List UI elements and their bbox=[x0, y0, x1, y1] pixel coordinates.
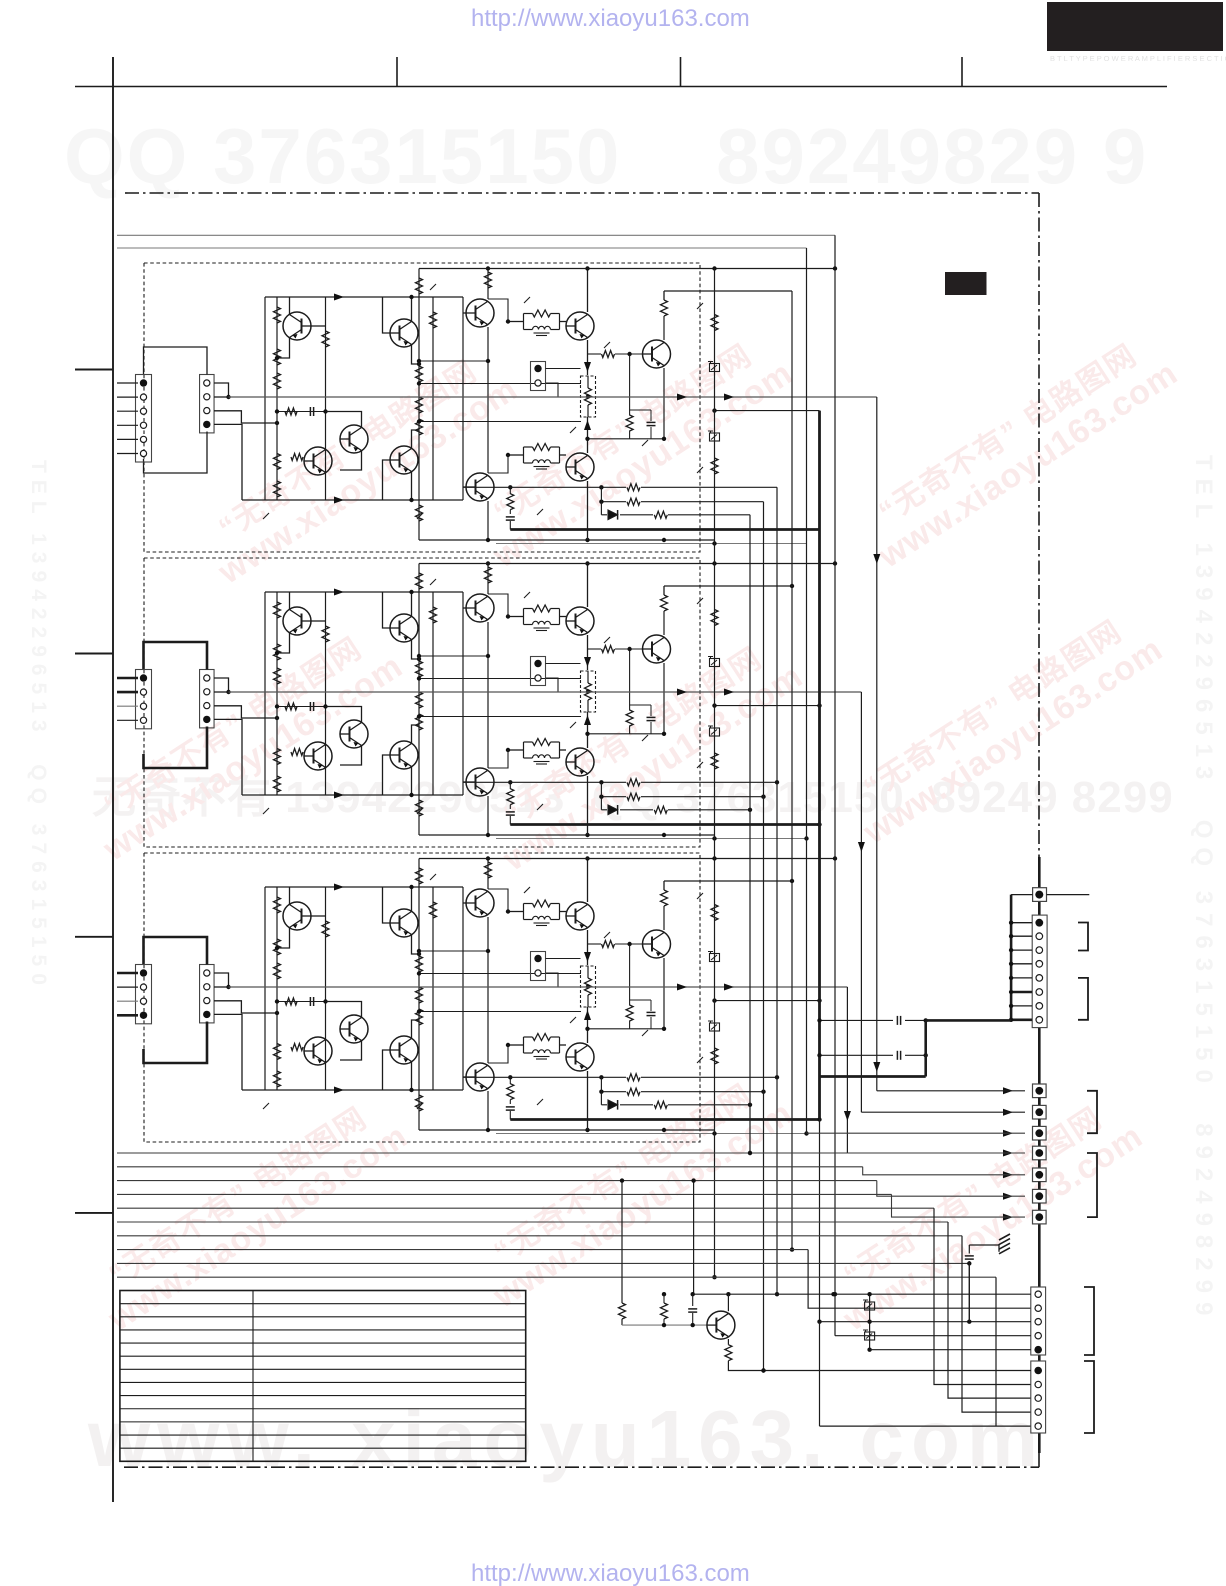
wire bbox=[117, 1014, 138, 1017]
resistor R62 bbox=[585, 978, 592, 995]
junction bbox=[726, 1292, 730, 1296]
wire bbox=[229, 986, 848, 988]
wire bbox=[620, 514, 653, 516]
junction bbox=[585, 437, 589, 441]
transistor Q24 bbox=[390, 909, 418, 937]
wire bbox=[144, 432, 208, 474]
wire bbox=[411, 767, 413, 796]
wire bbox=[264, 297, 266, 500]
wire bbox=[488, 299, 508, 322]
wire bbox=[650, 722, 652, 734]
wire bbox=[934, 1208, 1031, 1384]
resistor-inductor network Z4 bbox=[523, 742, 525, 758]
resistor R58 bbox=[416, 1095, 423, 1111]
wire bbox=[263, 1103, 269, 1109]
junction bbox=[691, 1323, 695, 1327]
wire bbox=[325, 887, 327, 1090]
wire bbox=[383, 592, 391, 628]
wire bbox=[641, 1076, 777, 1078]
junction bbox=[585, 561, 589, 565]
junction bbox=[486, 949, 490, 953]
wire bbox=[412, 430, 420, 449]
connector CN3 (2-pin) bbox=[531, 362, 546, 391]
transistor Q22 bbox=[304, 1037, 332, 1065]
svg-text:http://www.xiaoyu163.com: http://www.xiaoyu163.com bbox=[471, 1560, 750, 1586]
junction bbox=[712, 266, 716, 270]
wire bbox=[587, 376, 589, 388]
capacitor C4 bbox=[309, 702, 311, 711]
resistor R32 bbox=[416, 573, 423, 589]
wire bbox=[668, 514, 750, 516]
wire bbox=[560, 749, 567, 751]
junction bbox=[508, 485, 512, 489]
wire bbox=[229, 691, 862, 693]
junction bbox=[761, 795, 765, 799]
wire bbox=[629, 354, 631, 416]
junction bbox=[417, 381, 421, 385]
wire bbox=[847, 1152, 1002, 1154]
trimmer resistor VR bbox=[581, 376, 596, 417]
wire bbox=[727, 1339, 729, 1345]
resistor R59 bbox=[485, 862, 492, 878]
connector CN-A (5-pin) bbox=[1031, 1287, 1046, 1355]
wire bbox=[663, 368, 665, 439]
resistor R12 bbox=[416, 397, 423, 413]
wire bbox=[905, 1019, 926, 1021]
junction bbox=[486, 856, 490, 860]
junction bbox=[817, 1053, 821, 1057]
junction bbox=[599, 500, 603, 504]
resistor R52 bbox=[291, 1044, 303, 1051]
junction bbox=[775, 780, 779, 784]
wire bbox=[463, 1076, 466, 1078]
wire bbox=[509, 1077, 511, 1084]
wire bbox=[340, 451, 362, 471]
wire bbox=[546, 973, 559, 987]
resistor R79 bbox=[711, 753, 718, 769]
wire bbox=[604, 932, 610, 938]
wire bbox=[1038, 1433, 1041, 1453]
wire bbox=[383, 755, 391, 795]
junction bbox=[867, 1292, 871, 1296]
junction bbox=[417, 657, 421, 661]
junction bbox=[817, 703, 821, 707]
wire bbox=[570, 427, 576, 433]
wire bbox=[411, 1062, 413, 1091]
wire bbox=[560, 911, 567, 913]
wire bbox=[488, 594, 508, 617]
capacitor C9 bbox=[506, 1106, 515, 1108]
wire bbox=[463, 312, 466, 314]
wire bbox=[117, 1221, 948, 1223]
junction bbox=[1009, 976, 1013, 980]
wire bbox=[276, 887, 278, 1090]
wire bbox=[588, 353, 601, 355]
junction bbox=[599, 795, 603, 799]
wire bbox=[340, 1041, 362, 1061]
wire bbox=[1038, 1098, 1041, 1287]
wire bbox=[411, 472, 413, 501]
wire bbox=[277, 411, 326, 413]
wire bbox=[1002, 1216, 1025, 1218]
wire bbox=[650, 1000, 652, 1011]
resistor R42 bbox=[626, 710, 633, 726]
resistor R26 bbox=[274, 749, 281, 765]
svg-text:QQ 376315150 89249829 9: QQ 376315150 89249829 9 bbox=[64, 112, 1148, 200]
group bracket bbox=[1078, 978, 1088, 1020]
wire bbox=[508, 321, 524, 323]
amplifier channel block 3 outline bbox=[144, 853, 700, 1142]
junction bbox=[790, 1247, 794, 1251]
wire bbox=[587, 700, 589, 712]
resistor R67 bbox=[627, 484, 640, 491]
junction bbox=[417, 952, 421, 956]
wire bbox=[432, 592, 434, 795]
wire bbox=[214, 678, 229, 692]
signal arrow bbox=[584, 657, 591, 667]
trimmer resistor VR bbox=[581, 671, 596, 712]
junction bbox=[275, 716, 279, 720]
wire bbox=[264, 592, 266, 795]
wire bbox=[749, 515, 751, 1153]
wire bbox=[621, 1181, 623, 1303]
fusible resistor F4 bbox=[710, 728, 720, 736]
wire bbox=[1038, 1028, 1041, 1084]
junction bbox=[691, 1178, 695, 1182]
junction bbox=[417, 971, 421, 975]
resistor R40 bbox=[585, 683, 592, 700]
fusible resistor F2 bbox=[710, 433, 720, 441]
junction bbox=[775, 1292, 779, 1296]
wire bbox=[311, 915, 326, 917]
wire bbox=[1002, 1195, 1025, 1197]
junction bbox=[627, 942, 631, 946]
diode D3 bbox=[608, 1100, 618, 1110]
junction bbox=[833, 266, 837, 270]
junction bbox=[804, 1131, 808, 1135]
junction bbox=[506, 909, 510, 913]
wire bbox=[117, 382, 138, 384]
wire bbox=[693, 1181, 695, 1295]
wire bbox=[510, 823, 819, 826]
resistor R46 bbox=[274, 939, 281, 955]
wire bbox=[642, 440, 648, 446]
wire bbox=[462, 887, 464, 1090]
junction bbox=[226, 395, 230, 399]
wire bbox=[488, 889, 508, 912]
junction bbox=[486, 359, 490, 363]
wire bbox=[1038, 857, 1041, 888]
resistor R69 bbox=[627, 1074, 640, 1081]
wire bbox=[265, 591, 463, 593]
junction bbox=[967, 1320, 971, 1324]
wire bbox=[587, 340, 589, 375]
junction bbox=[599, 1090, 603, 1094]
wire bbox=[117, 1152, 847, 1154]
wire bbox=[1011, 922, 1032, 924]
junction bbox=[599, 780, 603, 784]
transistor Q13 bbox=[340, 720, 368, 748]
transistor Q25 bbox=[390, 1036, 418, 1064]
resistor R73 bbox=[654, 511, 667, 518]
junction bbox=[585, 732, 589, 736]
wire bbox=[117, 691, 138, 694]
wire bbox=[560, 1044, 567, 1046]
transistor Q8 bbox=[566, 312, 594, 340]
wire bbox=[508, 1044, 524, 1046]
junction bbox=[712, 856, 716, 860]
signal arrow bbox=[1003, 1171, 1013, 1178]
wire bbox=[620, 1104, 653, 1106]
wire bbox=[820, 1321, 1031, 1323]
wire bbox=[694, 1293, 1031, 1295]
signal arrow bbox=[677, 394, 687, 401]
wire bbox=[214, 411, 277, 423]
wire bbox=[601, 1104, 607, 1106]
resistor R78 bbox=[711, 610, 718, 626]
capacitor C10 bbox=[896, 1016, 898, 1025]
wire bbox=[289, 297, 291, 315]
transistor Q11 bbox=[283, 607, 311, 635]
resistor R35 bbox=[416, 714, 423, 730]
wire bbox=[588, 1028, 665, 1030]
wire bbox=[620, 809, 653, 811]
wire bbox=[117, 677, 138, 680]
wire bbox=[587, 776, 589, 835]
wire bbox=[601, 809, 607, 811]
wire bbox=[229, 396, 877, 398]
junction bbox=[804, 836, 808, 840]
wire bbox=[587, 859, 589, 903]
wire bbox=[263, 513, 269, 519]
wire bbox=[621, 1319, 623, 1325]
junction bbox=[833, 1292, 837, 1296]
wire bbox=[629, 944, 631, 1006]
resistor R34 bbox=[416, 692, 423, 708]
connector CN-B (5-pin) bbox=[1031, 1361, 1046, 1433]
wire bbox=[419, 858, 835, 860]
signal arrow bbox=[873, 554, 880, 564]
wire bbox=[641, 796, 764, 798]
capacitor C8 bbox=[647, 1011, 656, 1013]
fusible resistor F3 bbox=[710, 659, 720, 667]
wire bbox=[1011, 935, 1032, 937]
wire bbox=[546, 383, 559, 397]
wire bbox=[419, 678, 581, 680]
resistor R19 bbox=[602, 351, 615, 358]
wire bbox=[630, 704, 651, 706]
signal arrow bbox=[724, 689, 734, 696]
resistor R33 bbox=[416, 661, 423, 677]
wire bbox=[968, 1263, 970, 1321]
junction bbox=[417, 676, 421, 680]
resistor-inductor network Z1 bbox=[523, 314, 525, 330]
wire bbox=[463, 486, 466, 488]
signal arrow bbox=[724, 984, 734, 991]
wire bbox=[1038, 1098, 1041, 1106]
resistor R9 bbox=[430, 312, 437, 328]
signal arrow bbox=[844, 1111, 851, 1121]
transistor Q3 bbox=[340, 425, 368, 453]
wire bbox=[487, 501, 489, 540]
junction bbox=[712, 836, 716, 840]
junction bbox=[712, 541, 716, 545]
signal arrow bbox=[334, 1087, 344, 1094]
junction bbox=[775, 1075, 779, 1079]
wire bbox=[411, 887, 413, 912]
junction bbox=[748, 1103, 752, 1107]
transistor Q30 bbox=[566, 1043, 594, 1071]
resistor R25 bbox=[274, 668, 281, 684]
connector pin P6 bbox=[1033, 1189, 1047, 1203]
wire bbox=[600, 1092, 602, 1105]
wire bbox=[419, 834, 715, 836]
junction bbox=[712, 408, 716, 412]
junction bbox=[712, 703, 716, 707]
wire bbox=[304, 1050, 311, 1052]
wire bbox=[508, 749, 524, 751]
wire bbox=[462, 592, 464, 795]
wire bbox=[487, 1091, 489, 1130]
junction bbox=[585, 538, 589, 542]
resistor R77 bbox=[711, 458, 718, 474]
wire bbox=[117, 705, 138, 707]
junction bbox=[586, 984, 590, 988]
signal arrow bbox=[1003, 1193, 1013, 1200]
wire bbox=[948, 1222, 1031, 1398]
resistor R1 bbox=[274, 307, 281, 323]
wire bbox=[820, 1075, 926, 1078]
capacitor C2 bbox=[647, 421, 656, 423]
junction bbox=[662, 538, 666, 542]
wire bbox=[117, 1000, 138, 1002]
wire bbox=[277, 338, 290, 359]
resistor R65 bbox=[661, 890, 668, 906]
resistor R54 bbox=[416, 868, 423, 884]
junction bbox=[409, 295, 413, 299]
resistor-inductor network Z5 bbox=[523, 904, 525, 920]
transistor Q21 bbox=[283, 902, 311, 930]
transistor Q26 bbox=[466, 889, 494, 917]
connector CN2 bbox=[136, 375, 152, 463]
junction bbox=[585, 1027, 589, 1031]
wire bbox=[692, 1313, 694, 1325]
connector CN-P1 (single pin) bbox=[1033, 888, 1047, 902]
wire bbox=[510, 1118, 819, 1121]
resistor R63 bbox=[602, 941, 615, 948]
junction bbox=[508, 780, 512, 784]
junction bbox=[226, 985, 230, 989]
wire bbox=[663, 958, 665, 1029]
resistor R4 bbox=[274, 454, 281, 470]
wire bbox=[432, 887, 434, 1090]
signal arrow bbox=[584, 952, 591, 962]
signal arrow bbox=[1003, 1087, 1013, 1094]
junction bbox=[506, 319, 510, 323]
wire bbox=[463, 486, 626, 488]
junction bbox=[662, 437, 666, 441]
wire bbox=[277, 928, 290, 949]
wire bbox=[117, 1262, 969, 1264]
wire bbox=[876, 397, 878, 1091]
wire bbox=[304, 755, 311, 757]
junction bbox=[817, 822, 821, 826]
wire bbox=[664, 585, 792, 587]
connector CN-P2 (8-pin) bbox=[1032, 915, 1047, 1028]
wire bbox=[242, 499, 463, 501]
resistor R7 bbox=[285, 408, 297, 415]
wire bbox=[509, 510, 511, 514]
wire bbox=[311, 620, 326, 622]
junction bbox=[417, 949, 421, 953]
junction bbox=[1009, 1018, 1013, 1022]
svg-text:http://www.xiaoyu163.com: http://www.xiaoyu163.com bbox=[471, 5, 750, 32]
wire bbox=[487, 859, 489, 890]
wire bbox=[509, 1100, 511, 1104]
wire bbox=[697, 303, 703, 309]
wire bbox=[419, 1129, 715, 1131]
wire bbox=[835, 1335, 1031, 1337]
wire bbox=[277, 706, 326, 708]
wire bbox=[587, 1071, 589, 1130]
wire bbox=[1011, 949, 1032, 951]
wire bbox=[697, 893, 703, 899]
resistor R70 bbox=[627, 498, 640, 505]
resistor R72 bbox=[627, 1088, 640, 1095]
signal arrow bbox=[334, 589, 344, 596]
wire bbox=[1038, 1160, 1041, 1168]
wire bbox=[629, 1021, 631, 1029]
wire bbox=[546, 368, 581, 370]
resistor R6 bbox=[322, 331, 329, 347]
junction bbox=[323, 704, 327, 708]
wire bbox=[417, 1103, 423, 1109]
signal arrow bbox=[584, 362, 591, 372]
wire bbox=[289, 592, 291, 610]
wire bbox=[663, 1294, 665, 1303]
junction bbox=[486, 833, 490, 837]
resistor R36 bbox=[416, 800, 423, 816]
resistor R75 bbox=[654, 1101, 667, 1108]
wire bbox=[587, 405, 589, 417]
junction bbox=[662, 1027, 666, 1031]
capacitor C6 bbox=[506, 811, 515, 813]
capacitor C11 bbox=[896, 1051, 898, 1060]
ground bbox=[999, 1234, 1010, 1240]
junction bbox=[748, 1151, 752, 1155]
group bracket bbox=[1078, 923, 1088, 951]
svg-text:TEL 13942296513 QQ 376315150: TEL 13942296513 QQ 376315150 892498299 bbox=[1190, 455, 1217, 1324]
junction bbox=[409, 793, 413, 797]
junction bbox=[712, 561, 716, 565]
junction bbox=[1009, 948, 1013, 952]
junction bbox=[833, 856, 837, 860]
wire bbox=[1038, 1355, 1041, 1361]
signal arrow bbox=[858, 842, 865, 852]
wire bbox=[488, 1045, 508, 1063]
junction bbox=[790, 879, 794, 883]
resistor R28 bbox=[322, 626, 329, 642]
junction bbox=[275, 651, 279, 655]
wire bbox=[487, 917, 489, 1063]
resistor R64 bbox=[626, 1005, 633, 1021]
wire bbox=[697, 762, 703, 768]
wire bbox=[463, 607, 466, 609]
wire bbox=[819, 1118, 821, 1322]
wire bbox=[117, 396, 138, 398]
wire bbox=[418, 564, 420, 836]
wire bbox=[144, 1022, 208, 1064]
